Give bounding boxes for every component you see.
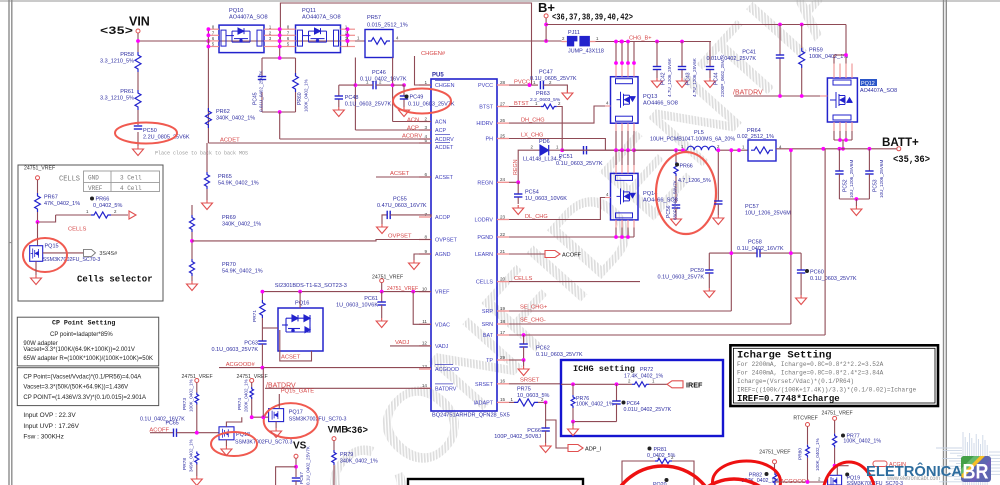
svg-text:0_0402_5%: 0_0402_5% [93, 203, 122, 209]
svg-text:0.01U_0402_25V7K: 0.01U_0402_25V7K [706, 56, 756, 62]
resistor PR67 [37, 180, 39, 193]
ground [133, 146, 144, 156]
svg-text:18: 18 [500, 319, 506, 324]
wire OVPSET run [192, 240, 431, 241]
wire kelvin taps [354, 58, 356, 131]
svg-text:24751_VREF: 24751_VREF [759, 449, 790, 455]
svg-text:SRSET: SRSET [520, 378, 540, 384]
svg-text:47K_0402_1%: 47K_0402_1% [44, 201, 80, 207]
transistor PQ17 [269, 409, 284, 422]
svg-text:PR81: PR81 [654, 447, 667, 453]
transistor PQ18 [219, 427, 234, 440]
svg-text:OVPSET: OVPSET [435, 238, 458, 244]
resistor PR75 [509, 401, 514, 403]
node REGN [509, 150, 540, 182]
svg-text:<35>: <35> [100, 26, 133, 38]
svg-text:ACSET: ACSET [281, 355, 301, 361]
svg-text:For 2400mA, Icharge=0.8C=0.8*2: For 2400mA, Icharge=0.8C=0.8*2.4*2=3.84A [737, 369, 884, 376]
svg-text:ACGOOD#: ACGOOD# [226, 362, 256, 368]
svg-text:2.2U_0805_25V6K: 2.2U_0805_25V6K [143, 135, 190, 141]
svg-text:DH_CHG: DH_CHG [521, 117, 545, 123]
sheet frame top edge [0, 0, 1000, 2]
annotation box Icharge Setting [730, 345, 938, 406]
pin 2 ACN [419, 121, 431, 123]
svg-text:BQ24751ARHDR_QFN28_5X5: BQ24751ARHDR_QFN28_5X5 [432, 413, 510, 419]
svg-text:ACDET: ACDET [220, 138, 240, 144]
svg-text:PC60: PC60 [810, 270, 824, 276]
pin 17 BAT [497, 334, 509, 336]
svg-text:6: 6 [424, 172, 427, 177]
svg-text:PC42: PC42 [661, 72, 667, 85]
resistor PR65 [206, 143, 208, 172]
svg-text:PC53: PC53 [873, 179, 879, 192]
svg-text:10_0603_5%: 10_0603_5% [517, 393, 550, 399]
svg-text:CELLS: CELLS [68, 227, 87, 233]
svg-text:Vacset=3.3*(100K/(64.9K+100K)): Vacset=3.3*(100K/(64.9K+100K))=2.001V [23, 347, 134, 353]
inductor PL5 [634, 149, 687, 151]
tag ADP_I [546, 420, 568, 448]
node CELLS wire [509, 281, 640, 283]
svg-text:IREF=((100k/(100K+17.4K))/3.3): IREF=((100k/(100K+17.4K))/3.3)*(0.1/0.02… [737, 387, 917, 394]
svg-text:0.1U_0603_25V7K: 0.1U_0603_25V7K [212, 347, 259, 353]
svg-text:PJ11: PJ11 [568, 30, 580, 36]
svg-text:PQ13: PQ13 [643, 94, 657, 100]
sheet frame right double line [943, 0, 945, 485]
svg-text:BR: BR [963, 461, 989, 484]
svg-text:PVCC: PVCC [478, 83, 493, 89]
node ACSET [376, 176, 431, 178]
svg-text:3S/4S#: 3S/4S# [99, 251, 117, 257]
svg-text:SSM3K7002FU_SC70-3: SSM3K7002FU_SC70-3 [43, 257, 101, 263]
transistor PQ15 [30, 246, 43, 262]
pin 12 VADJ [419, 345, 431, 347]
svg-text:PC59: PC59 [690, 268, 704, 274]
svg-text:21: 21 [500, 249, 506, 254]
svg-text:65W adapter R=(100K*100K)/(10: 65W adapter R=(100K*100K)/(100K+100K)=50… [23, 356, 153, 362]
svg-text:PC44: PC44 [714, 72, 720, 85]
svg-text:0.1U_0402_25V7K: 0.1U_0402_25V7K [306, 445, 311, 485]
capacitor PC42 [656, 42, 658, 67]
svg-text:100P_0402_50V8J: 100P_0402_50V8J [494, 434, 541, 440]
svg-text:10U_1206_25V6M: 10U_1206_25V6M [849, 160, 854, 198]
svg-text:SRP: SRP [482, 309, 493, 315]
svg-text:SRN: SRN [482, 322, 493, 328]
tag ACGIN [873, 461, 887, 467]
pin 19 SRP [497, 310, 509, 312]
node DL_CHG [509, 198, 605, 220]
capacitor PC66 [545, 402, 547, 428]
svg-text:www.eletronicabr.com: www.eletronicabr.com [886, 475, 940, 482]
capacitor PC61 [381, 292, 383, 302]
svg-text:SRSET: SRSET [475, 382, 494, 388]
svg-text:BATDRV: BATDRV [435, 386, 457, 392]
capacitor PC51 [562, 149, 583, 151]
svg-text:PC58: PC58 [748, 240, 762, 246]
pin 9 AGND [419, 253, 431, 255]
svg-text:16: 16 [500, 379, 506, 384]
pin 5 ACDET [419, 142, 431, 144]
svg-text:200K_0402_1%: 200K_0402_1% [244, 379, 249, 412]
svg-text:PR62: PR62 [216, 109, 230, 115]
svg-text:PC41: PC41 [742, 50, 756, 56]
capacitor PC53 [868, 149, 870, 171]
transistor PQ11 [296, 25, 341, 52]
svg-text:15: 15 [500, 397, 506, 402]
resistor near PQ16 [261, 292, 263, 300]
svg-text:PR73: PR73 [182, 398, 188, 410]
resistor PR76 [572, 384, 574, 395]
node ACDET wire [208, 142, 431, 144]
svg-text:0.1U_0603_25V7K: 0.1U_0603_25V7K [556, 161, 603, 167]
wire BAT run [509, 334, 825, 336]
resistor PR66b [90, 197, 94, 201]
svg-text:100K_0402_1%: 100K_0402_1% [815, 438, 820, 471]
svg-text:27: 27 [500, 101, 506, 106]
diode PD6 [540, 145, 549, 155]
svg-text:PC62: PC62 [536, 346, 550, 352]
svg-text:4.7_1206_5%: 4.7_1206_5% [678, 178, 711, 184]
charger controller IC PU5 [431, 79, 497, 411]
svg-text:17: 17 [500, 330, 506, 335]
svg-text:PR66: PR66 [680, 164, 693, 170]
svg-text:ICHG setting: ICHG setting [573, 364, 635, 374]
resistor PR82 [774, 464, 776, 473]
pin 1 CHGEN [419, 84, 431, 86]
resistor PR64 sense [748, 140, 776, 161]
resistor PR58 [135, 52, 141, 72]
svg-text:REGN: REGN [513, 159, 519, 175]
pin 28 PVCC [497, 84, 509, 86]
svg-text:IREF: IREF [686, 380, 703, 389]
annotation box ICHG setting [561, 360, 723, 436]
svg-text:ACP: ACP [435, 128, 446, 134]
svg-text:23: 23 [500, 214, 506, 219]
svg-text:ACSET: ACSET [435, 175, 454, 181]
wire PVCC top run [280, 3, 531, 85]
svg-text:SI2301BDS-T1-E3_SOT23-3: SI2301BDS-T1-E3_SOT23-3 [275, 283, 347, 289]
svg-text:ACN: ACN [435, 120, 446, 126]
annotation box CP Point Setting [17, 317, 158, 366]
svg-text:24: 24 [500, 177, 506, 182]
pin 25 PH [497, 138, 509, 140]
svg-text:54.9K_0402_1%: 54.9K_0402_1% [222, 269, 263, 275]
pin 21 LEARN [497, 253, 509, 255]
resistor PR59 [801, 25, 803, 49]
svg-text:CHGEN: CHGEN [435, 83, 455, 89]
svg-text:BAT: BAT [483, 333, 494, 339]
svg-text:VADJ: VADJ [435, 344, 449, 350]
capacitor PC58 [709, 252, 757, 254]
svg-text:3 Cell: 3 Cell [120, 175, 142, 182]
svg-text:PR67: PR67 [44, 195, 58, 201]
svg-text:PR61: PR61 [120, 89, 134, 95]
wire ACDRV run [279, 112, 281, 139]
svg-text:PR57: PR57 [367, 15, 381, 21]
svg-text:PQ16: PQ16 [295, 301, 309, 307]
svg-text:PC46: PC46 [372, 70, 386, 76]
node LX_CHG / PH [509, 139, 605, 151]
svg-text:SE_CHG-: SE_CHG- [520, 318, 546, 324]
pin 26 HIDRV [497, 122, 509, 124]
svg-text:CP Point=(Vacset/Vvdac)*(0.1/P: CP Point=(Vacset/Vvdac)*(0.1/PR56)=4.04A [23, 374, 141, 380]
pin 14 BATDRV [419, 387, 431, 389]
capacitor PC52 [838, 149, 840, 171]
transistor PQ14 [611, 173, 639, 220]
svg-text:AO4407A_SO8: AO4407A_SO8 [860, 88, 897, 94]
svg-text:1U_0603_10V6K: 1U_0603_10V6K [336, 303, 378, 309]
svg-text:PQ15: PQ15 [45, 244, 59, 250]
capacitor PC55 [382, 215, 387, 224]
svg-text:CP Point Setting: CP Point Setting [52, 320, 115, 327]
svg-text:CP POINT=(1.436V/3.3V)*(0.1/0.: CP POINT=(1.436V/3.3V)*(0.1/0.015)=2.901… [23, 395, 146, 401]
svg-text:8: 8 [424, 234, 427, 239]
svg-text:LODRV: LODRV [475, 218, 494, 224]
svg-text:PR71: PR71 [252, 310, 258, 322]
svg-text:PC52: PC52 [843, 179, 849, 192]
pin 6 ACSET [419, 176, 431, 178]
resistor PR61 [135, 90, 141, 110]
wire VDAC [413, 292, 431, 325]
capacitor PC45 [262, 57, 296, 59]
svg-text:Input OVP : 22.3V: Input OVP : 22.3V [23, 412, 76, 419]
pin 11 VDAC [419, 323, 431, 325]
annotation box bottom (cut) [408, 479, 583, 485]
svg-text:PU5: PU5 [432, 73, 444, 79]
resistor PR69 [191, 205, 193, 215]
pin 7 ACOP [419, 216, 431, 218]
capacitor PC57 [717, 150, 719, 201]
svg-text:24751_VREF: 24751_VREF [387, 286, 418, 292]
svg-text:<36>: <36> [346, 426, 368, 437]
svg-text:VADJ: VADJ [395, 340, 409, 346]
svg-text:PC63: PC63 [244, 341, 258, 347]
svg-text:90W adapter: 90W adapter [23, 341, 57, 347]
svg-text:0.1U_0402_16V7K: 0.1U_0402_16V7K [737, 246, 784, 252]
wire SRN run [509, 323, 791, 325]
svg-text:PR75: PR75 [517, 387, 531, 393]
capacitor PC44 [709, 42, 711, 67]
svg-text:20: 20 [500, 276, 506, 281]
node VADJ [390, 345, 431, 347]
svg-text:ACN: ACN [407, 117, 419, 123]
highlight circle bottom left [609, 466, 717, 485]
svg-text:3: 3 [424, 125, 427, 130]
resistor PR60 [295, 58, 297, 76]
svg-text:1: 1 [424, 80, 427, 85]
svg-text:4.7U_1206_25V6K: 4.7U_1206_25V6K [667, 57, 672, 97]
svg-text:PC61: PC61 [364, 296, 378, 302]
capacitor PC54 [517, 182, 519, 194]
sheet frame left double line [8, 0, 10, 485]
svg-text:0.015_2512_1%: 0.015_2512_1% [367, 22, 408, 28]
svg-text:PQ17: PQ17 [289, 409, 303, 415]
svg-text:AO4407A_SO8: AO4407A_SO8 [302, 15, 341, 21]
svg-text:DL_CHG: DL_CHG [525, 214, 548, 220]
svg-text:349K_0402_1%: 349K_0402_1% [189, 439, 194, 472]
svg-text:AGND: AGND [435, 252, 451, 258]
capacitor PC48 [339, 84, 356, 86]
svg-text:PQ10: PQ10 [229, 8, 243, 14]
svg-text:3.3_1210_5%: 3.3_1210_5% [100, 59, 134, 65]
pin 8 OVPSET [419, 239, 431, 241]
svg-text:PR80: PR80 [798, 448, 804, 460]
svg-text:3.3_1210_5%: 3.3_1210_5% [100, 96, 134, 102]
capacitor PC50 [134, 125, 142, 127]
svg-text:SSM3K7002FU_SC70.3: SSM3K7002FU_SC70.3 [235, 439, 292, 445]
svg-text:IADAPT: IADAPT [474, 400, 494, 406]
logo circuit traces decoration [936, 432, 1000, 485]
svg-text:PR79: PR79 [340, 452, 353, 458]
svg-text:24751_VREF: 24751_VREF [822, 410, 853, 416]
svg-text:PC65: PC65 [166, 421, 179, 427]
svg-text:ACDRV: ACDRV [435, 137, 454, 143]
wire PGND rail [509, 236, 634, 238]
node DH_CHG [509, 106, 605, 123]
svg-text:PR72: PR72 [640, 367, 653, 373]
svg-text:PR60: PR60 [297, 92, 303, 105]
svg-text:LEARN: LEARN [475, 252, 493, 258]
pin 13 ACGOOD [419, 368, 431, 370]
svg-text:CELLS: CELLS [59, 176, 80, 184]
svg-text:PR78: PR78 [182, 458, 188, 470]
svg-text:0.1U_0603_25V7K: 0.1U_0603_25V7K [658, 275, 705, 281]
pin 27 BTST [497, 106, 509, 108]
svg-text:ACGOOD: ACGOOD [435, 367, 459, 373]
resistor PR81 [648, 447, 652, 451]
svg-text:0.1U_0605_25V7K: 0.1U_0605_25V7K [530, 76, 577, 82]
wire CHG_B+ rail [596, 41, 712, 43]
node LEARN / ACOFF tag [509, 253, 545, 255]
svg-text:JUMP_43X118: JUMP_43X118 [568, 49, 604, 55]
svg-text:9: 9 [424, 249, 427, 254]
pin 24 REGN [497, 181, 509, 183]
pin 4 ACDRV [419, 138, 431, 140]
jumper PJ11 [562, 41, 567, 43]
svg-text:PC47: PC47 [539, 70, 553, 76]
resistor PR62 [205, 108, 211, 128]
pin 18 SRN [497, 323, 509, 325]
transistor PQ12 [827, 78, 857, 122]
svg-text:25: 25 [500, 133, 506, 138]
resistor PR77 [834, 420, 836, 433]
svg-text:<36,37,38,39,40,42>: <36,37,38,39,40,42> [552, 12, 633, 23]
svg-text:0.47U_0603_16V7K: 0.47U_0603_16V7K [377, 203, 427, 209]
svg-text:CHGEN#: CHGEN# [421, 51, 446, 57]
svg-text:10U_1206_25V6M: 10U_1206_25V6M [745, 211, 791, 217]
svg-text:680P_0402_50V7K: 680P_0402_50V7K [673, 179, 678, 220]
svg-text:PR64: PR64 [747, 128, 761, 134]
svg-text:CHG_B+: CHG_B+ [629, 36, 652, 42]
svg-text:1U_0603_10V6K: 1U_0603_10V6K [525, 196, 567, 202]
svg-text:54.9K_0402_1%: 54.9K_0402_1% [218, 181, 259, 187]
svg-text:19: 19 [500, 306, 506, 311]
capacitor PC67 [292, 477, 300, 479]
logo chip icon [961, 456, 991, 482]
svg-text:ACDET: ACDET [435, 145, 454, 151]
svg-text:PL5: PL5 [694, 130, 704, 136]
pin 15 IADAPT [497, 401, 509, 403]
svg-text:PR65: PR65 [218, 174, 232, 180]
svg-text:AO4407A_SO8: AO4407A_SO8 [229, 15, 268, 21]
svg-text:0.1U_0603_25V7K: 0.1U_0603_25V7K [345, 102, 392, 108]
svg-text:VREF: VREF [435, 290, 450, 296]
wire right bus [347, 29, 349, 46]
svg-text:10U_1206_25V6M: 10U_1206_25V6M [879, 160, 884, 198]
capacitor PC46 [372, 81, 374, 89]
svg-text:340K_0402_1%: 340K_0402_1% [216, 116, 255, 122]
svg-text:PC54: PC54 [525, 190, 539, 196]
svg-text:PC51: PC51 [559, 154, 573, 160]
svg-text:PC67: PC67 [299, 472, 305, 484]
annotation box Cells selector [18, 165, 163, 301]
wire PQ10 left bus [207, 29, 209, 143]
resistor PR78 [195, 452, 199, 465]
resistor PR66 [675, 150, 677, 162]
capacitor PC43 [681, 42, 683, 67]
capacitor PC64 [616, 384, 618, 401]
pin 23 LODRV [497, 219, 509, 221]
svg-text:PC55: PC55 [393, 197, 407, 203]
svg-text:26: 26 [500, 118, 506, 123]
wire mid bus [279, 29, 281, 58]
highlight circle bottom mid [686, 479, 782, 485]
svg-text:ACP: ACP [407, 126, 419, 132]
svg-text:ADP_I: ADP_I [585, 447, 602, 453]
svg-text:PR59: PR59 [809, 48, 823, 54]
capacitor PC56 [672, 204, 680, 206]
svg-text:PR66: PR66 [96, 197, 110, 203]
svg-text:4.7U_1206_25V6K: 4.7U_1206_25V6K [692, 57, 697, 97]
node 24751_VREF at VREF pin [380, 279, 384, 283]
svg-text:For 2200mA, Icharge=0.8C=0.8*2: For 2200mA, Icharge=0.8C=0.8*2*2.2=3.52A [737, 361, 884, 368]
node TP [509, 359, 524, 361]
transistor PQ10 [219, 25, 264, 52]
svg-text:100K_0402_1%: 100K_0402_1% [304, 79, 309, 112]
pin 10 VREF [419, 291, 431, 293]
capacitor PC62 [522, 333, 526, 337]
svg-text:SE_CHG+: SE_CHG+ [520, 305, 548, 311]
wire VIN vertical [137, 33, 139, 52]
svg-text:4 Cell: 4 Cell [120, 185, 142, 192]
capacitor PC49 [393, 84, 404, 86]
svg-text:ACOP: ACOP [435, 215, 451, 221]
svg-text:PC49: PC49 [410, 95, 424, 101]
svg-text:PQ12: PQ12 [861, 81, 875, 87]
svg-text:340K_0402_1%: 340K_0402_1% [222, 222, 261, 228]
svg-text:PR70: PR70 [222, 262, 236, 268]
capacitor PC47 [539, 81, 541, 89]
svg-text:29: 29 [500, 355, 506, 360]
svg-text:TP: TP [486, 358, 493, 364]
svg-text:7: 7 [424, 212, 427, 217]
svg-text:PC56: PC56 [666, 205, 672, 218]
wire SRP run [509, 310, 731, 312]
pin 3 ACP [419, 129, 431, 131]
svg-text:PQ11: PQ11 [302, 8, 316, 14]
svg-text:24751_VREF: 24751_VREF [372, 274, 403, 280]
svg-text:10UH_PCMB104T-100MS_6A_20%: 10UH_PCMB104T-100MS_6A_20% [650, 137, 735, 143]
svg-text:<35,36>: <35,36> [893, 155, 930, 166]
svg-text:Icharge Setting: Icharge Setting [737, 350, 832, 362]
svg-text:Fsw : 300KHz: Fsw : 300KHz [23, 434, 63, 441]
svg-text:PH: PH [486, 137, 494, 143]
svg-text:24751_VREF: 24751_VREF [24, 166, 55, 172]
svg-text:OVPSET: OVPSET [388, 234, 412, 240]
pin 16 SRSET [497, 383, 509, 385]
svg-text:100K_0402_1%: 100K_0402_1% [189, 379, 194, 412]
svg-text:AO4466_SO8: AO4466_SO8 [643, 101, 678, 107]
svg-text:340K_0402_1%: 340K_0402_1% [340, 459, 378, 465]
